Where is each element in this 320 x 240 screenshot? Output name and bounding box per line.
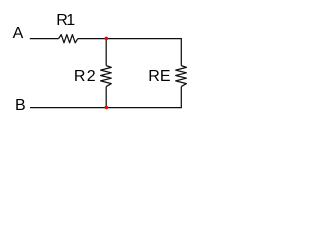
node B — [15, 97, 26, 114]
svg-text:2: 2 — [87, 68, 96, 85]
junction (bottom node) — [105, 106, 109, 110]
wire — [30, 38, 59, 40]
resistor R1 — [59, 35, 78, 43]
label RE — [148, 68, 170, 85]
svg-text:RE: RE — [148, 68, 170, 85]
wire — [78, 38, 106, 40]
wire — [105, 87, 107, 108]
svg-text:B: B — [15, 97, 26, 114]
wire — [106, 87, 181, 108]
label R1 — [56, 12, 75, 29]
junction (top node) — [105, 37, 109, 41]
svg-text:A: A — [13, 25, 24, 42]
svg-text:1: 1 — [66, 12, 75, 29]
node A — [13, 25, 24, 42]
resistor RE — [176, 66, 187, 87]
wire — [30, 107, 106, 109]
label R2 — [74, 68, 96, 85]
svg-text:R: R — [74, 68, 86, 85]
resistor R2 — [101, 66, 112, 87]
wire — [106, 39, 181, 66]
wire — [105, 39, 107, 66]
